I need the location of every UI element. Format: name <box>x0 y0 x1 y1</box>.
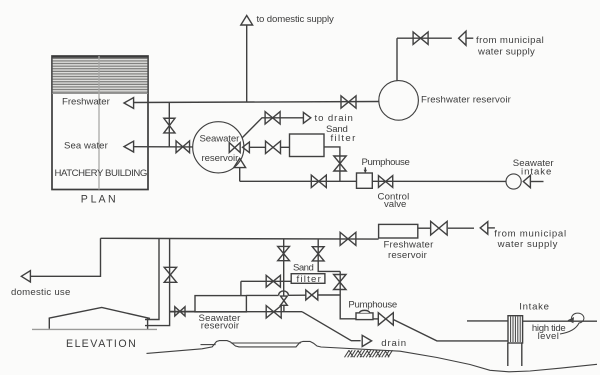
leader pumphouse label <box>364 167 367 173</box>
valve on filter top drop <box>312 247 324 261</box>
svg-text:domestic use: domestic use <box>11 287 71 298</box>
valve elevation municipal <box>431 221 448 235</box>
svg-text:E L E V A T I O N: E L E V A T I O N <box>66 338 136 350</box>
wire reservoir top line to pump riser <box>246 294 278 296</box>
svg-text:Freshwater: Freshwater <box>62 96 111 107</box>
valve on reservoir top line <box>306 290 318 300</box>
wire seawater line building to reservoir <box>134 146 194 148</box>
wire after hop <box>288 294 305 296</box>
svg-text:P L A N: P L A N <box>81 194 116 206</box>
wire cross-connect freshwater/seawater <box>168 103 170 147</box>
box seawater reservoir (elevation) <box>195 296 246 312</box>
valve on seawater building line <box>176 141 190 153</box>
box sand filter (elevation) <box>291 274 325 284</box>
arrow drain <box>362 335 371 346</box>
valve sand filter outlet <box>334 156 346 171</box>
valve seawater to sand filter <box>266 141 281 153</box>
svg-text:from municipal: from municipal <box>494 228 566 239</box>
valve seawater reservoir inlet <box>175 307 185 316</box>
wire building drop pipe 1 <box>145 238 159 319</box>
wire valve to sand filter <box>281 146 290 148</box>
tank freshwater reservoir (plan circle) <box>379 81 419 121</box>
valve on bypass drop <box>278 246 290 260</box>
box sand filter (plan) <box>290 134 325 157</box>
wire filter feed line <box>241 280 291 282</box>
svg-text:reservoir: reservoir <box>388 250 428 261</box>
arrow domestic use <box>21 271 30 282</box>
svg-text:Pumphouse: Pumphouse <box>362 157 411 168</box>
ground shoreline profile <box>147 341 598 372</box>
wire elevation top line <box>101 237 379 240</box>
svg-text:reservoir: reservoir <box>201 321 240 332</box>
valve on drain branch <box>265 112 280 124</box>
wire reservoir bottom line <box>170 311 302 313</box>
hop crossing over vertical <box>279 291 289 295</box>
wire filter bypass drop (left) <box>283 239 285 297</box>
wire pump riser <box>340 271 356 318</box>
svg-text:Seawater: Seawater <box>200 133 241 144</box>
valve small on bypass drop <box>280 296 287 305</box>
arrow seawater intake <box>523 175 543 187</box>
svg-text:filter: filter <box>297 274 322 285</box>
wire to pump riser <box>318 294 340 296</box>
wire branch to domestic supply <box>246 25 248 103</box>
valve pump discharge <box>378 313 393 325</box>
pump pumphouse (elevation) <box>356 310 373 319</box>
svg-text:valve: valve <box>384 199 407 210</box>
svg-text:Intake: Intake <box>519 301 549 312</box>
svg-text:to domestic supply: to domestic supply <box>257 14 335 25</box>
valve filter feed <box>266 275 280 287</box>
box pumphouse (plan) <box>357 173 373 188</box>
svg-text:water supply: water supply <box>477 47 535 58</box>
wire drain line <box>302 312 361 341</box>
building (elevation) <box>32 308 157 330</box>
water level segment left <box>201 344 216 346</box>
circle seawater intake (plan) <box>506 174 521 189</box>
valve freshwater main <box>341 96 356 108</box>
wire elbow to domestic use <box>30 238 100 276</box>
svg-text:Freshwater reservoir: Freshwater reservoir <box>421 95 512 106</box>
wire after valve <box>448 227 474 229</box>
building hatchery (plan) <box>52 56 148 190</box>
valve municipal supply plan <box>413 32 428 44</box>
valve on bottom line <box>311 175 326 187</box>
wire discharge to intake <box>393 320 508 341</box>
svg-text:Sea water: Sea water <box>64 141 109 152</box>
wire feed drop to reservoir <box>240 281 242 295</box>
valve at seawater reservoir outlet <box>229 143 240 153</box>
wire sand filter outlet <box>324 147 340 181</box>
arrow into seawater reservoir <box>243 142 266 153</box>
valve elevation freshwater <box>340 232 356 245</box>
arrow to domestic supply <box>241 16 253 26</box>
arrow freshwater into building <box>124 98 134 109</box>
svg-text:Sand: Sand <box>293 263 314 274</box>
wire pumphouse to valve <box>373 318 378 320</box>
svg-text:filter: filter <box>331 133 357 144</box>
valve control valve <box>378 176 392 188</box>
arrow from municipal water supply (plan) <box>459 31 474 45</box>
wire branch to seawater reservoir <box>170 310 195 312</box>
svg-text:drain: drain <box>381 338 406 349</box>
arrow from municipal (elevation) <box>480 222 495 235</box>
svg-text:reservoir: reservoir <box>202 153 240 164</box>
wire municipal supply (plan) <box>397 37 452 39</box>
water level segment middle <box>231 342 301 344</box>
arrow seawater into building <box>124 141 134 152</box>
wire plan bottom seawater supply line <box>240 180 506 182</box>
svg-text:HATCHERY BUILDING: HATCHERY BUILDING <box>55 168 148 179</box>
valve on drop pipe 2 <box>164 267 176 282</box>
wire drain branch diagonal <box>238 118 303 142</box>
box freshwater reservoir (elevation) <box>379 224 418 238</box>
arrow to drain <box>303 112 310 123</box>
valve on cross-connect <box>164 118 175 133</box>
wire filter top drop <box>318 239 340 272</box>
svg-text:intake: intake <box>521 166 552 177</box>
svg-text:level: level <box>538 331 560 342</box>
wire building drop pipe 2 (seawater) <box>145 238 170 325</box>
valve on pump riser <box>334 275 346 290</box>
wire reservoir riser <box>396 38 398 81</box>
wire reservoir to municipal arrow <box>418 227 430 229</box>
tank seawater reservoir (plan circle) <box>193 122 244 173</box>
wire bypass to bottom line <box>283 305 285 312</box>
hatch drain ground <box>345 350 393 357</box>
wire freshwater main (building to reservoir) <box>134 102 379 103</box>
svg-text:from municipal: from municipal <box>476 35 544 46</box>
svg-text:Pumphouse: Pumphouse <box>348 300 397 311</box>
valve on reservoir bottom line <box>266 306 281 318</box>
high tide leader curl <box>560 313 584 334</box>
svg-text:to drain: to drain <box>315 113 354 124</box>
intake structure <box>467 316 597 366</box>
arrow up into seawater reservoir bottom <box>234 158 246 181</box>
svg-text:water supply: water supply <box>497 239 558 250</box>
